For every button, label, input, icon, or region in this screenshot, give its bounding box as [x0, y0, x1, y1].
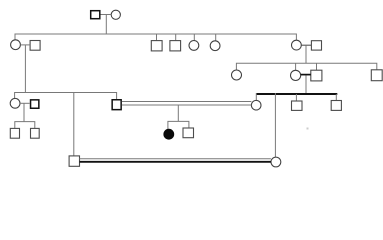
circle IV-2 (lower right, consanguineous) [271, 157, 281, 167]
faint stray dot [307, 128, 309, 130]
marriage line III-1 x III-1s [20, 102, 30, 104]
descent drop from couple III-5 [305, 76, 307, 94]
drop to square II-4 [175, 34, 177, 41]
consanguineous double marriage line III-3 x IV-1 (lower) [122, 104, 252, 106]
consanguineous double marriage line III-2 x IV-2 (lower, bold) [80, 161, 271, 163]
drop to circle IV-1 [255, 93, 257, 101]
square I-1 (male, gen I) [91, 11, 100, 19]
sibship line B (gen III left) [15, 93, 117, 100]
drop to square IV-3 [295, 94, 297, 101]
square IV-L2 [31, 128, 40, 138]
square IV-L1 [10, 128, 19, 138]
long drop to circle IV-2 [274, 93, 276, 157]
square V-2 [183, 128, 194, 138]
sibship line D (gen IV right, bold) [256, 93, 337, 95]
sibship line F (gen V) [168, 121, 189, 129]
square II-2 (spouse of II-1) [30, 41, 40, 51]
square III-6 (right end of sibship C) [371, 70, 382, 81]
drop to square III-5s [316, 63, 318, 70]
circle II-1 (female, leftmost gen II) [11, 40, 21, 50]
marriage line I-1 x I-2 [101, 14, 112, 16]
square III-2 (lower left, consanguineous) [69, 156, 79, 166]
drop to circle III-5 [295, 63, 297, 70]
drop to square II-3 [156, 34, 158, 41]
descent drop from couple II-1/II-2 [24, 45, 26, 92]
marriage line III-5 x III-5s (bold) [301, 74, 311, 76]
square IV-4 [331, 101, 341, 111]
square III-5s (spouse of III-5) [311, 70, 322, 81]
consanguineous double marriage line III-2 x IV-2 (upper) [80, 158, 271, 160]
descent drop from couple I [105, 15, 107, 35]
square II-8 (spouse of II-7) [311, 41, 321, 50]
circle III-5 [291, 70, 301, 80]
square III-1s (spouse, bold) [31, 100, 39, 108]
sibship line C (gen III right) [236, 63, 376, 70]
sibship line E (gen IV left) [15, 122, 35, 129]
marriage line II-1 x II-2 [20, 44, 30, 46]
drop to square IV-4 [335, 94, 337, 101]
descent drop from couple II-7/II-8 [305, 45, 307, 63]
square II-3 [151, 41, 162, 51]
long drop to square III-2 [73, 93, 75, 156]
consanguineous double marriage line III-3 x IV-1 (upper) [122, 101, 252, 103]
square II-4 [170, 41, 181, 51]
descent drop from couple III-3/IV-1 [177, 105, 179, 121]
circle II-7 (rightmost gen II) [292, 40, 302, 50]
circle III-1 (female) [10, 98, 20, 108]
circle I-2 (female, gen I) [111, 10, 120, 19]
circle IV-1 (consanguineous wife) [251, 100, 261, 110]
square III-3 (bold, right end of sibship B) [112, 100, 121, 110]
drop to circle II-5 [193, 34, 195, 41]
square IV-3 [292, 101, 303, 110]
sibship line A (gen II) [15, 34, 296, 40]
marriage line II-7 x II-8 [301, 44, 311, 46]
affected filled circle V-1 (female) [164, 129, 174, 139]
drop to circle II-6 [215, 34, 217, 41]
descent drop from couple III-1 [23, 103, 25, 121]
circle II-5 [189, 41, 199, 51]
circle III-4 (left end of sibship C) [232, 70, 242, 80]
circle II-6 [210, 41, 220, 51]
